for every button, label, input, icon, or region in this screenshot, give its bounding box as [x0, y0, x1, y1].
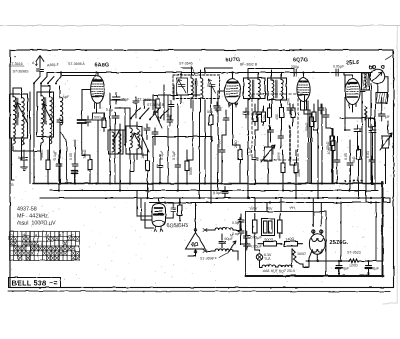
small block hum coil [369, 119, 376, 127]
wire drop x372 [371, 137, 374, 184]
schematic border frame [10, 50, 394, 288]
T1b core lines [45, 97, 46, 124]
capacitor C8 0.1uF 500V [175, 161, 181, 171]
table cross marks [10, 237, 79, 261]
resistor R9 tone [357, 146, 361, 164]
trimmer arrow on T1b [42, 104, 53, 123]
wire detector section [255, 104, 293, 148]
frame bottom second line [8, 290, 390, 293]
wire x115 [114, 124, 116, 184]
wire C24 [222, 110, 226, 140]
resistor R17 250k [291, 104, 295, 122]
wire x136 [135, 107, 137, 118]
bus line y202 [150, 202, 390, 204]
resistor R11 [280, 104, 284, 122]
wire V1 cathode down [82, 90, 98, 184]
svg-text:6U7: 6U7 [271, 269, 278, 273]
capacitor C9 0.1uF [252, 154, 258, 164]
underline [9, 65, 24, 67]
svg-text:0.5µ: 0.5µ [232, 221, 239, 225]
mains cord capacitor 2 [238, 227, 244, 237]
V2 cathode tail [218, 91, 233, 110]
svg-text:2kΩ: 2kΩ [141, 152, 145, 159]
RF coil T1b box [37, 92, 54, 137]
scan artifact bottom right corner [383, 303, 397, 304]
svg-text:40k: 40k [275, 114, 279, 120]
wire drop x248 [247, 110, 249, 198]
antenna coil T1 box [10, 94, 28, 138]
oscillator switch S2 [130, 108, 169, 120]
eye coupling capacitor [171, 203, 176, 215]
resistor R14 right of V3 [312, 108, 316, 126]
scan grain speckle [11, 52, 392, 287]
wire power box inner right [389, 198, 391, 203]
wire drop x296 [295, 150, 297, 163]
power section box [246, 212, 327, 277]
svg-text:0.05: 0.05 [344, 153, 348, 160]
wire drop x322 [321, 104, 323, 184]
capacitor C27 [278, 132, 284, 142]
capacitor C6 0.05uF [72, 160, 78, 170]
svg-text:BF-3662 B: BF-3662 B [240, 63, 258, 67]
label leader line [191, 66, 195, 75]
wire antenna switch down [33, 88, 35, 184]
svg-text:8µF: 8µF [373, 267, 380, 271]
resistor R3 [146, 157, 150, 175]
T3 core [253, 80, 254, 98]
triangle terminal circles [194, 229, 197, 232]
heater string winding B [278, 265, 292, 267]
cathode cap heavy bars [72, 171, 78, 174]
tone potentiometer [380, 133, 392, 150]
wire x158 [157, 95, 159, 118]
T4 primary coil [272, 80, 274, 100]
wire x371 [370, 84, 372, 184]
wire y118 horizontal [340, 117, 375, 119]
svg-text:PH.: PH. [290, 207, 296, 211]
grid capacitor 25uF beside V1 [113, 92, 121, 104]
IF transformer T4 can [268, 78, 287, 100]
junction dots on buses [47, 182, 373, 203]
oscillator coil winding b [119, 133, 121, 153]
T1 core lines [17, 98, 18, 125]
tube V4 25L6 envelope [344, 73, 360, 109]
scan artifact right edge [396, 26, 398, 303]
svg-text:6A8G: 6A8G [95, 63, 110, 69]
wire R13 [210, 100, 212, 203]
T2 trimmer right cap and arrow [208, 80, 216, 94]
dropping resistor 2 [285, 242, 304, 247]
wire drop x147 [147, 150, 149, 198]
svg-text:ST-3646: ST-3646 [179, 62, 193, 66]
wire filter line y261 [306, 260, 376, 262]
oscillator coil winding a [112, 132, 114, 152]
rectifier plate terminals [312, 230, 315, 233]
wire x366 [365, 112, 367, 203]
capacitor C14 top [354, 125, 361, 136]
speaker cone [376, 93, 388, 104]
wire caps to chassis [339, 261, 383, 276]
wire T1 tops [13, 86, 60, 98]
junction dot cluster right [344, 117, 372, 182]
wire drop x222 [221, 140, 223, 184]
padder trimmer caps [112, 112, 120, 142]
svg-text:ST-3616: ST-3616 [9, 62, 23, 66]
wire T2 leads [181, 68, 211, 112]
wire drop x304 [305, 96, 311, 184]
oscillator capacitor C21 [144, 124, 150, 134]
svg-text:6U7G: 6U7G [226, 58, 241, 64]
wire eye feeds [137, 191, 196, 229]
capacitor C20 under V1 left [85, 116, 91, 126]
wire tuner bottom link [12, 150, 42, 152]
svg-text:8µF: 8µF [343, 267, 350, 271]
table header marks [10, 234, 75, 238]
wire y100 horizontal [110, 99, 125, 101]
wire y68 link [248, 69, 294, 71]
resistor R2 30k [88, 156, 92, 174]
wire x153 [152, 145, 154, 191]
small arrow by A [36, 62, 38, 66]
wire x193 [187, 100, 193, 160]
capacitor across speaker [379, 114, 386, 121]
tube V3 6Q7G envelope [297, 73, 310, 107]
voltage selector block [262, 219, 275, 236]
wire drop x218 [217, 104, 219, 191]
wire drop x199 [199, 112, 201, 198]
wire switch row to oscillator [34, 73, 61, 89]
svg-text:M: M [23, 234, 26, 238]
wire drop x120 [119, 124, 121, 191]
svg-text:0.05µF: 0.05µF [333, 65, 345, 69]
RF coil primary lower [41, 123, 43, 143]
wire T4 leads [272, 70, 282, 108]
voltage table grid [10, 232, 80, 261]
electrolytic capacitor 8uF first [336, 261, 342, 274]
wire triangle leads with x marks [196, 226, 216, 253]
wire x174 [173, 85, 175, 100]
svg-text:0.1µF: 0.1µF [160, 150, 164, 160]
resistor R19 100k [331, 137, 335, 155]
svg-text:Insul. 1000Ω.µV: Insul. 1000Ω.µV [17, 221, 56, 227]
wire y136 link [153, 137, 212, 146]
wire rectifier leads [309, 198, 321, 267]
wire T3 leads [248, 70, 258, 110]
IF transformer T2 can (dashed) [173, 75, 220, 99]
svg-text:6Q7G: 6Q7G [293, 58, 308, 64]
wire x168 [167, 95, 169, 184]
svg-text:500k: 500k [277, 152, 281, 160]
bus line y190.5 [50, 190, 378, 192]
svg-text:500k: 500k [189, 167, 193, 175]
wire x345 [345, 75, 350, 130]
speaker field coil circle [370, 69, 385, 84]
svg-text:2MΩ: 2MΩ [234, 140, 238, 148]
wire drop x290 [290, 160, 296, 198]
cathode resistor 50 ohm under V1 [92, 113, 105, 120]
capacitor pad [168, 100, 174, 110]
capacitor C13 [369, 156, 375, 166]
svg-text:500kΩ: 500kΩ [271, 144, 275, 155]
wire x388 tone [386, 121, 389, 184]
resistor R7 150k [294, 159, 298, 177]
mark dot [14, 56, 16, 58]
svg-text:50Ω: 50Ω [94, 115, 101, 119]
wire x66 [60, 132, 67, 184]
svg-text:100V: 100V [249, 207, 258, 211]
wire drop x350 [349, 140, 351, 191]
wire y130 link [115, 129, 126, 131]
grid cap line V2 [205, 68, 233, 73]
output choke T6 winding lower [215, 249, 233, 251]
voltage selector plug right [278, 214, 283, 239]
wire drop x82-90 [82, 150, 90, 184]
capacitor C24 [223, 114, 229, 124]
wire drop x232 [233, 110, 241, 184]
main ground bus y183.5 (heavy) [33, 183, 383, 185]
svg-text:4Ω: 4Ω [191, 242, 199, 248]
line capacitor C19 0.05uF [244, 242, 251, 250]
pilot lamp 6.3V [256, 254, 262, 260]
screen resistors under V2 [268, 104, 272, 122]
tube V2 6U7G envelope [224, 73, 240, 108]
switch arrow on transformer [228, 241, 236, 252]
svg-text:50k: 50k [207, 110, 213, 114]
T2 core lines [195, 79, 196, 98]
svg-text:0.05: 0.05 [69, 153, 73, 160]
voltage selector plug left [253, 214, 258, 239]
chassis heavy bus bottom [246, 275, 384, 277]
wire drop x205 [204, 100, 206, 184]
antenna A [36, 56, 44, 69]
svg-text:O: O [10, 234, 13, 238]
capacitor C5 0.1uF [56, 160, 62, 170]
oscillator coil box L4 [126, 126, 142, 154]
antenna coil secondary [22, 98, 25, 126]
wire drop x357 [358, 136, 359, 198]
RF coil primary [41, 96, 44, 124]
junction dots top buses [60, 71, 372, 199]
svg-text:6A8: 6A8 [263, 269, 269, 273]
tube V1 6A8G envelope [91, 73, 105, 104]
wire cathode bypass [81, 114, 83, 150]
resistor R13 mid [209, 111, 213, 129]
padder capacitor C2 [57, 118, 63, 126]
capacitor C30 [287, 104, 293, 114]
wire x375 [374, 104, 376, 191]
svg-text:5kΩ: 5kΩ [352, 156, 356, 163]
wire x125 [125, 108, 126, 145]
resistor R12 under V1 [102, 114, 106, 132]
coupling capacitor C 0.05uF [336, 69, 338, 76]
T2 primary coil [191, 78, 193, 98]
detector section dashed enclosure [252, 94, 298, 160]
capacitor C29 [243, 108, 249, 118]
svg-text:BELL 538 ~=: BELL 538 ~= [12, 279, 58, 288]
wire second top line [61, 75, 96, 77]
variable capacitor arrow C osc [153, 111, 162, 128]
wire drop x160 [159, 155, 161, 184]
capacitor C28 [214, 102, 220, 112]
oscillator coil winding 2 [137, 129, 139, 149]
chassis heavy bus right vertical [382, 182, 384, 277]
T2 secondary coil [201, 78, 203, 98]
grid resistor R5 [238, 146, 242, 164]
capacitor C25 [323, 111, 329, 121]
antenna coil secondary lower [22, 125, 24, 145]
wire right verticals [333, 75, 388, 203]
output transformer coil bumps [365, 74, 366, 88]
T3 secondary coil [258, 80, 260, 100]
svg-text:25Z6G.: 25Z6G. [330, 240, 349, 246]
trimmer arrow on T1 [16, 103, 27, 122]
capacitor C11 [334, 156, 340, 166]
wire drop x75 [74, 140, 76, 184]
title box BELL 538 [9, 278, 61, 288]
capacitor C17 0.5uF between buses [222, 186, 228, 198]
rectifier tube V6 25Z6G [309, 234, 325, 255]
svg-text:0.05µF: 0.05µF [251, 236, 263, 240]
junction dot eye [179, 201, 181, 203]
oscillator coil winding [130, 128, 132, 148]
svg-text:0.1µF: 0.1µF [172, 150, 176, 160]
wire heater circuit [255, 238, 309, 267]
RF coil secondary [50, 97, 53, 125]
resistor R15 500k [253, 108, 257, 126]
wire T1 bottoms to bus [13, 126, 60, 184]
wire x74.5 [74, 173, 76, 183]
wire drop x110 [109, 130, 111, 184]
voice coil arrow in speaker [373, 72, 383, 82]
IF transformer T3 can [244, 78, 266, 99]
wire top signal bus y72 [57, 72, 372, 74]
wire x171 [170, 110, 172, 120]
resistor R4 [185, 157, 189, 175]
wire x142 [142, 132, 148, 155]
B+ bus y198 [40, 197, 390, 199]
svg-text:M.: M. [230, 234, 234, 238]
svg-text:50kΩ: 50kΩ [40, 149, 44, 158]
field resistor zigzag vertical [365, 106, 368, 120]
svg-text:25µF: 25µF [121, 98, 130, 102]
capacitor 60uF across [219, 234, 225, 248]
mains cord capacitors left of box [238, 216, 244, 226]
coupling capacitor C on y72 line [294, 69, 296, 76]
AVC dashed line [289, 126, 291, 160]
wire drop x130 [129, 165, 131, 184]
line capacitor C18 0.05uF [244, 231, 251, 242]
dropping resistor 600 ohm [258, 242, 282, 247]
antenna coil primary lower [13, 124, 15, 144]
T2 trimmer left box [177, 78, 188, 95]
wire drop x281 [282, 104, 284, 191]
B plus vertical x341 [340, 202, 342, 262]
filter resistor zigzag 120 ohm [349, 259, 359, 263]
field coil triangle 4ohm [186, 233, 206, 250]
capacitor osc grid [133, 97, 139, 107]
svg-text:TB: TB [9, 183, 14, 187]
wire left return [12, 92, 31, 184]
capacitor C10 50pF [219, 146, 225, 156]
wire x362 [361, 92, 363, 184]
wire oscillator connections [110, 85, 164, 165]
wire drop x268 pot top [267, 130, 269, 184]
wire drop x386 [385, 148, 387, 184]
svg-text:4937-58: 4937-58 [17, 207, 37, 213]
oscillator capacitor C22 [152, 128, 158, 138]
svg-text:140Ω: 140Ω [286, 238, 295, 242]
capacitor C31 [318, 104, 324, 114]
corner tick top right [386, 56, 393, 60]
svg-text:0.5µF: 0.5µF [213, 191, 223, 195]
svg-text:25L6: 25L6 [287, 269, 295, 273]
V2 pin loops [229, 104, 238, 106]
antenna series capacitor [37, 70, 44, 77]
oscillator trimmer arrows [133, 133, 149, 152]
wire V3 pins down [301, 101, 312, 184]
svg-text:120Ω: 120Ω [349, 264, 358, 268]
svg-text:50µµ: 50µµ [217, 140, 221, 148]
wire x314 [314, 104, 332, 130]
capacitor C15 top [369, 126, 376, 137]
svg-text:5µF: 5µF [18, 156, 25, 160]
speaker terminals [369, 66, 372, 69]
capacitor C26 50pF [268, 126, 274, 136]
wire oscillator mesh [144, 85, 200, 145]
svg-text:ST-3698 E: ST-3698 E [200, 257, 218, 261]
wire drop x59 [58, 150, 60, 191]
antenna band switch S1 [33, 77, 61, 85]
svg-text:0.01: 0.01 [366, 151, 370, 158]
wire drop x48 [47, 150, 49, 184]
tube V1 base pins [95, 103, 101, 109]
wire drop x337 [336, 137, 338, 184]
wire drop x269 resistor [269, 104, 271, 130]
wire mains entry [241, 214, 246, 244]
svg-text:0.05µF: 0.05µF [251, 245, 263, 249]
resistor R16 [262, 108, 266, 126]
T3 primary coil [248, 80, 250, 100]
svg-text:ST-3698 A: ST-3698 A [68, 62, 85, 66]
wire V4 plate to output transformer [353, 92, 366, 113]
svg-text:60µF: 60µF [225, 237, 234, 241]
RF coil secondary lower [50, 124, 52, 144]
ground G1 with capacitor [21, 150, 28, 164]
wire drop x332 [331, 128, 333, 184]
B plus vertical x376 [375, 202, 377, 262]
output choke T6 winding upper [215, 228, 233, 230]
T4 secondary coil [281, 80, 283, 100]
T2 trimmer left cap and arrow [178, 80, 186, 94]
svg-text:ST-3698S: ST-3698S [13, 70, 30, 74]
resistor osc [156, 99, 160, 108]
capacitor C16 [215, 104, 221, 114]
svg-text:6Q7: 6Q7 [279, 269, 286, 273]
wire drop x178 [177, 104, 179, 191]
svg-text:0.1µF: 0.1µF [248, 146, 252, 156]
eye series resistor [178, 198, 183, 221]
capacitor under T3 [255, 108, 261, 118]
resistor R1 50k [46, 156, 50, 174]
T4 core [276, 80, 277, 98]
resistor R18 under V3 [310, 113, 314, 131]
capacitor C23 mid [167, 116, 173, 126]
capacitor C12 [347, 159, 353, 169]
tuning coil L3 [60, 97, 63, 125]
mains input riser 100V [255, 198, 281, 212]
resistor R8 25k [330, 132, 334, 150]
heater string winding A [262, 265, 276, 267]
